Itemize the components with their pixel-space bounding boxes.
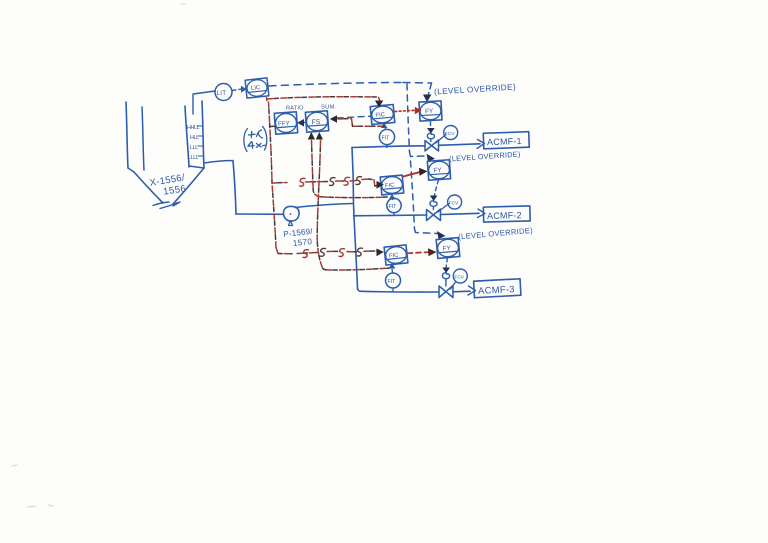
wire FIT1 stub to line1 <box>386 145 388 148</box>
wire FY3 to valve3 stem <box>446 258 448 268</box>
faint pencil smudges bottom left <box>12 465 53 507</box>
level mark LLL <box>190 145 203 151</box>
process pipe riser <box>352 148 358 289</box>
red tick bus to FFY <box>270 125 276 127</box>
svg-text:FY: FY <box>433 167 442 175</box>
text level override 2 <box>449 149 521 163</box>
tag FCV2 <box>448 195 462 209</box>
svg-text:LIC: LIC <box>251 85 262 92</box>
arrowhead run A into FIC2 <box>377 181 384 189</box>
level mark HHLL <box>187 125 203 131</box>
valve3 body <box>439 286 453 298</box>
wire FS to FFY <box>303 122 306 124</box>
arrowhead into FIC3 bottom <box>389 263 396 269</box>
level mark HLL <box>190 135 203 141</box>
svg-text:(LEVEL OVERRIDE): (LEVEL OVERRIDE) <box>449 149 521 163</box>
red command wire FIC2 to FY2 <box>404 172 420 176</box>
vessel apex outlet marks <box>153 202 180 209</box>
red bus vertical left <box>269 102 277 248</box>
transmitter FIT3 <box>386 273 401 288</box>
pump P-1569/1570 <box>283 206 299 221</box>
svg-text:FIT: FIT <box>382 136 391 142</box>
level transmitter LIT <box>215 84 232 101</box>
signal break S on run A 3 <box>344 177 350 185</box>
process pipe vessel outlet <box>204 161 236 215</box>
valve2 actuator <box>430 201 437 210</box>
svg-text:1570: 1570 <box>292 237 312 248</box>
signal break S on run A 4 <box>356 177 362 185</box>
svg-text:FS: FS <box>311 119 321 127</box>
arrowhead into FY2 left <box>419 168 428 176</box>
svg-text:FIC: FIC <box>385 183 395 190</box>
arrowhead into FY1 top <box>423 95 432 103</box>
arrowhead into LIC <box>241 86 247 93</box>
valve1 tag line <box>436 135 447 144</box>
red wire run B corner <box>276 248 377 254</box>
arrow into ACMF-3 <box>468 286 476 295</box>
destination box ACMF-3 <box>474 279 521 298</box>
stilling chamber left wall <box>185 106 189 167</box>
arrowhead run B into FIC3 <box>377 249 384 257</box>
arrowhead feeder into FS bottom 2 <box>316 132 323 140</box>
wire FIT3 stub to line3 <box>392 288 394 292</box>
wire FIT2 to FIC2 <box>391 197 394 200</box>
wire level override bus lower <box>411 161 415 229</box>
arrowhead onto valve3 <box>442 268 450 274</box>
text level override 1 <box>434 82 516 96</box>
red wire run A bus to FIC2 <box>272 179 377 186</box>
vessel wall bottom corner <box>128 168 134 172</box>
red wire FS feeder from FIC3 measurement <box>317 141 389 271</box>
arrowhead into FY2 top <box>427 154 436 162</box>
process pipe line2 <box>354 213 480 216</box>
faint speck top <box>180 3 186 6</box>
vessel cone right diagonal <box>173 168 204 204</box>
arrowhead into FS right <box>330 115 337 123</box>
svg-text:FCV: FCV <box>454 274 464 280</box>
arrowhead into FIC1 bottom <box>381 122 388 128</box>
relay FY2 <box>427 160 450 180</box>
pump base triangle <box>289 221 293 226</box>
vessel cone left diagonal <box>134 172 163 203</box>
arrowhead into FFY right <box>297 119 304 127</box>
svg-text:1556: 1556 <box>163 183 188 197</box>
process pipe line1 <box>352 144 480 148</box>
valve3 tag line <box>451 282 456 289</box>
process pipe line3 <box>358 289 471 293</box>
wire FIT2 stub to line2 <box>393 213 395 216</box>
signal break S on run B 4 <box>357 248 363 256</box>
LIT tap line into chamber <box>193 91 215 114</box>
arrowhead into FY3 left <box>428 248 437 256</box>
red command wire FIC1 to FY1 <box>395 110 416 111</box>
vessel tag X-1556/1556 <box>149 172 187 199</box>
valve1 body <box>425 140 439 151</box>
red wire FIT1 feeder to FS <box>338 119 384 127</box>
svg-text:(LEVEL OVERRIDE): (LEVEL OVERRIDE) <box>434 82 516 96</box>
pump tag P-1569/1570 <box>283 227 315 249</box>
signal break S on run B 1 <box>303 250 309 258</box>
arrowhead into FY3 top <box>437 231 446 239</box>
red command wire FIC3 to FY3 <box>408 252 430 253</box>
destination box ACMF-2 <box>483 206 530 222</box>
controller FIC2 <box>380 175 403 195</box>
summer FS <box>305 111 328 132</box>
wire level override vertical bus <box>407 84 410 152</box>
svg-text:FIT: FIT <box>389 204 398 210</box>
svg-text:FIC: FIC <box>375 112 385 119</box>
svg-text:FY: FY <box>425 108 434 115</box>
stilling chamber right wall <box>202 101 204 168</box>
arrowhead onto valve1 <box>427 128 435 134</box>
transmitter FIT1 <box>379 129 394 144</box>
vessel outer wall inner line <box>142 107 144 170</box>
svg-text:(LEVEL OVERRIDE): (LEVEL OVERRIDE) <box>458 226 534 242</box>
wire level override branch to FY2 <box>410 152 426 157</box>
svg-text:FFY: FFY <box>278 120 290 128</box>
svg-text:ACMF-2: ACMF-2 <box>487 210 522 221</box>
signal wire LIT to LIC <box>232 89 242 91</box>
svg-text:RATIO: RATIO <box>286 106 304 112</box>
signal break S on run A 2 <box>330 178 336 186</box>
svg-text:LIT: LIT <box>217 90 227 97</box>
svg-text:HHLL: HHLL <box>187 125 200 131</box>
wire FIT3 to FIC3 <box>391 269 394 273</box>
signal break S on run A 1 <box>300 178 306 186</box>
wire level override main dashed from LIC <box>269 83 432 87</box>
red setpoint wire LIC corner to FIC1 top <box>267 97 381 102</box>
transmitter FIT2 <box>387 198 401 212</box>
svg-text:FY: FY <box>442 245 451 253</box>
valve3 actuator <box>442 273 449 286</box>
svg-text:HLL: HLL <box>190 135 199 141</box>
svg-text:FIC: FIC <box>389 253 399 260</box>
stilling chamber bottom <box>189 166 204 168</box>
blue wire FIC1 to FS dashed <box>337 116 372 118</box>
ratio station FFY <box>274 112 297 134</box>
controller FIC3 <box>384 245 408 265</box>
relay FY1 <box>419 101 442 121</box>
arrowhead into FY1 left <box>415 107 422 114</box>
relay FY3 <box>436 238 460 259</box>
controller LIC <box>245 78 269 98</box>
svg-text:FIT: FIT <box>388 279 397 285</box>
arrowhead onto valve2 <box>430 196 438 202</box>
valve2 tag line <box>438 204 449 213</box>
note scribble (ratio values) <box>244 127 267 152</box>
svg-text:LLL: LLL <box>190 145 198 151</box>
arrowhead into FIC1 top <box>375 101 383 108</box>
wire FY2 to valve2 stem <box>435 180 439 196</box>
arrow into ACMF-2 <box>478 209 486 218</box>
red wire FS feeder from FIC2 measurement <box>312 141 388 198</box>
svg-text:LLLL: LLLL <box>188 155 199 161</box>
wire FIT1 to FIC1 <box>385 126 386 129</box>
arrowhead feeder into FS bottom 1 <box>308 132 315 140</box>
wire level override branch to FY3 <box>415 229 438 234</box>
process pipe pump discharge <box>295 204 353 208</box>
signal break S on run B 3 <box>339 249 345 257</box>
valve2 body <box>427 209 441 221</box>
svg-text:ACMF-1: ACMF-1 <box>487 136 522 147</box>
wire FY1 to valve1 stem <box>430 122 432 129</box>
signal break S on run B 2 <box>320 248 326 256</box>
svg-text:SUM.: SUM. <box>321 105 336 111</box>
arrowhead into FIC2 bottom <box>389 194 396 200</box>
wire level override turn down into FY1 <box>428 83 432 96</box>
vessel X-1556/1556 outer wall left line <box>126 102 128 168</box>
svg-text:ACMF-3: ACMF-3 <box>478 283 515 296</box>
tag FCV3 <box>453 269 467 283</box>
destination box ACMF-1 <box>483 132 529 149</box>
text level override 3 <box>458 226 534 242</box>
arrow into ACMF-1 <box>477 140 485 149</box>
svg-text:FCV: FCV <box>445 131 455 137</box>
tag FCV1 <box>444 126 458 140</box>
process pipe pump suction <box>236 213 283 215</box>
controller FIC1 <box>370 105 394 125</box>
level mark LLLL <box>188 155 204 161</box>
valve1 actuator <box>427 133 434 141</box>
svg-text:FCV: FCV <box>449 200 459 206</box>
